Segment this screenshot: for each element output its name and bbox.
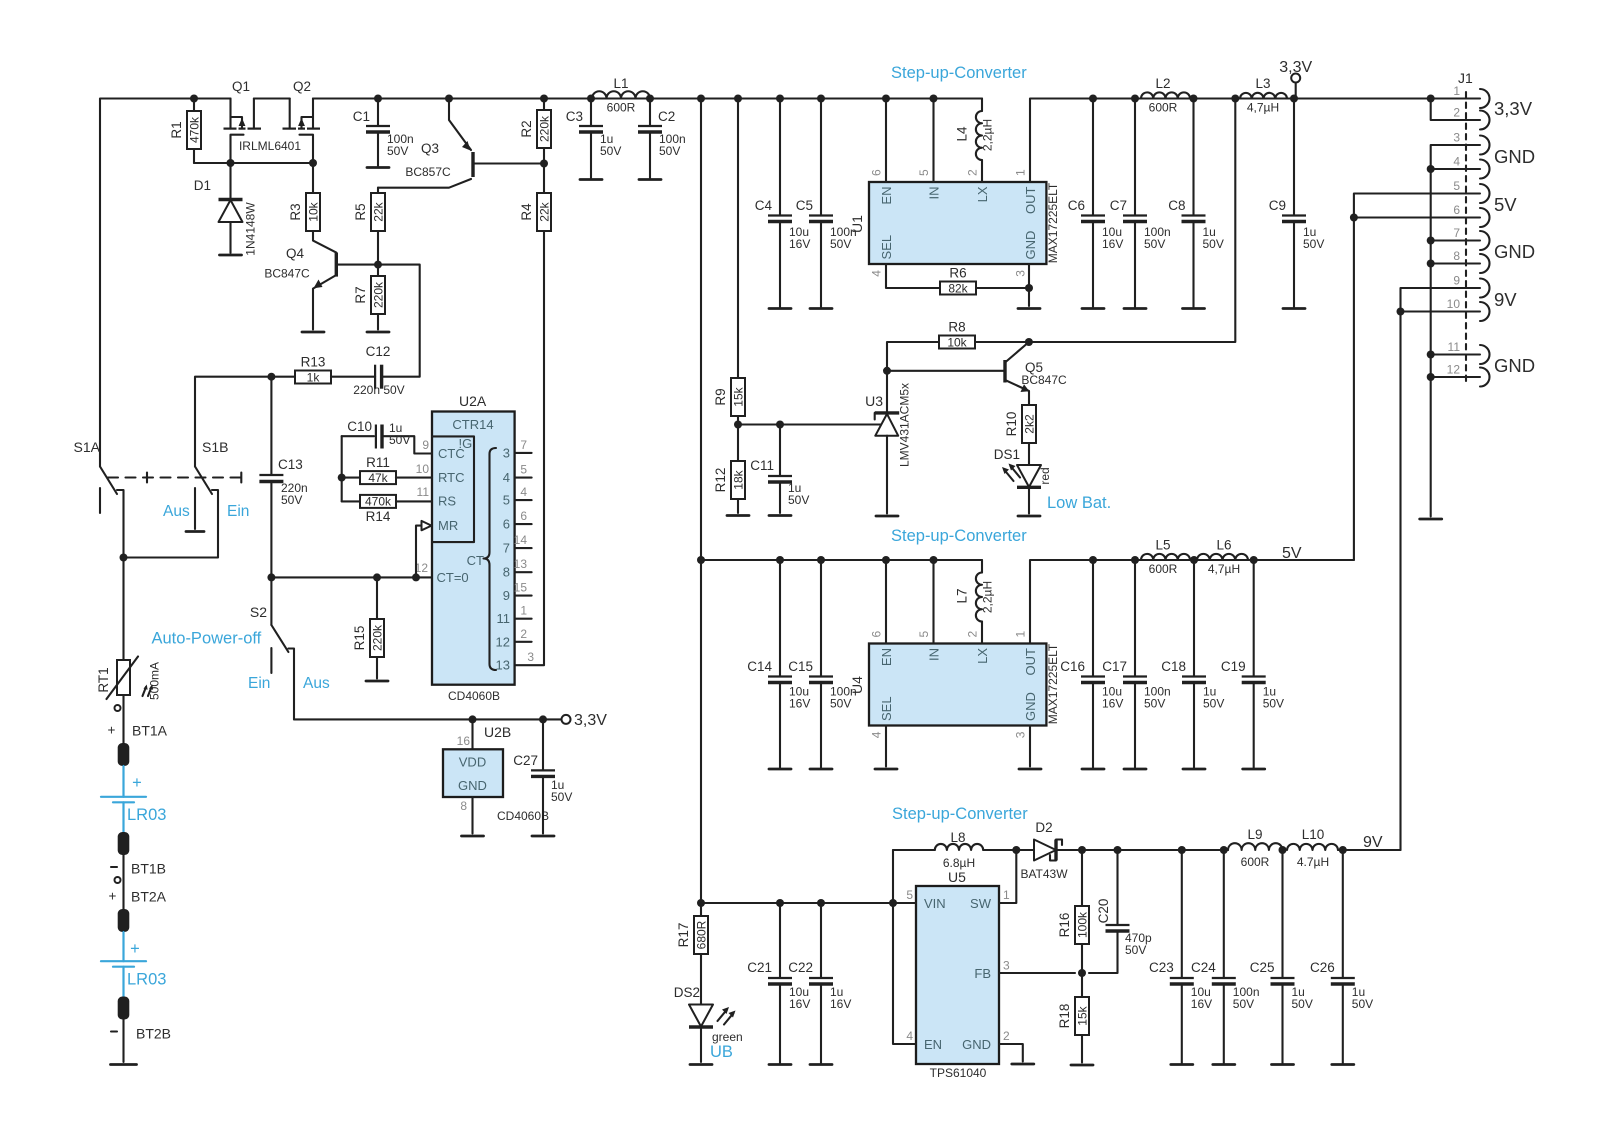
wire: FB pin 3 <box>999 972 1075 974</box>
svg-text:R8: R8 <box>948 320 965 335</box>
J1 pin 4 number <box>1453 155 1460 169</box>
svg-text:red: red <box>1038 467 1052 484</box>
svg-text:50V: 50V <box>1233 997 1254 1011</box>
wire: S1B top to R13 <box>195 377 295 467</box>
node: C27 junction <box>539 715 547 723</box>
wire: VIN/EN left riser <box>893 850 916 1044</box>
svg-text:L7: L7 <box>955 588 970 603</box>
capacitor C25 <box>1250 850 1313 1065</box>
net labels J1 <box>1494 98 1535 376</box>
capacitor C11 <box>750 425 809 514</box>
node: pin2 branch <box>1427 95 1435 103</box>
svg-text:TPS61040: TPS61040 <box>930 1066 987 1080</box>
svg-text:C9: C9 <box>1269 198 1286 213</box>
LED DS1 red <box>994 447 1052 514</box>
svg-text:L9: L9 <box>1247 827 1262 842</box>
svg-text:15k: 15k <box>732 386 746 406</box>
wire: U4 GND pin 3 <box>1029 726 1031 767</box>
resistor R12 <box>713 425 746 514</box>
svg-text:L4: L4 <box>955 126 970 142</box>
transistor Q2 (IRLML6401 P-MOSFET) <box>239 79 320 163</box>
capacitor C20 470p <box>1089 850 1152 973</box>
ground (U1 GND) <box>1018 307 1040 310</box>
battery contact BT2B <box>111 997 171 1063</box>
svg-text:600R: 600R <box>1149 101 1178 115</box>
svg-text:3: 3 <box>1014 731 1028 738</box>
svg-text:GND: GND <box>1023 231 1038 260</box>
svg-text:BC847C: BC847C <box>1021 373 1067 387</box>
text: 5V net label <box>1282 545 1302 562</box>
text: Step-up-Converter (3,3V) <box>891 64 1027 82</box>
svg-text:R10: R10 <box>1004 412 1019 437</box>
wire: SW pin 1 riser <box>999 850 1016 903</box>
node: feeder top <box>697 95 705 103</box>
svg-text:DS1: DS1 <box>994 447 1020 462</box>
svg-text:7: 7 <box>503 541 510 556</box>
U2A output Q6 pin 6 <box>503 509 532 532</box>
J1 pin 2 number <box>1453 106 1460 120</box>
text: Step-up-Converter (9V) <box>892 805 1028 823</box>
svg-text:S1B: S1B <box>202 439 228 455</box>
wire: U5 GND pin 2 <box>999 1044 1023 1062</box>
svg-text:C19: C19 <box>1221 659 1246 674</box>
resistor R14 <box>342 495 432 524</box>
svg-text:2: 2 <box>520 627 527 641</box>
inductor L3 4,7uH <box>1240 76 1287 115</box>
battery contact BT1B <box>111 832 166 909</box>
resistor R18 <box>1057 973 1090 1063</box>
svg-text:C21: C21 <box>747 960 772 975</box>
svg-text:6.8µH: 6.8µH <box>943 856 975 870</box>
svg-text:100k: 100k <box>1076 911 1090 938</box>
svg-text:L5: L5 <box>1155 538 1170 553</box>
svg-text:3: 3 <box>1003 959 1010 973</box>
node: C26 top / 9V <box>1339 846 1347 854</box>
node: C5 top <box>817 95 825 103</box>
resistor R5 <box>353 188 386 265</box>
node: U2B VDD junction <box>469 715 477 723</box>
svg-text:C24: C24 <box>1191 960 1216 975</box>
svg-text:UB: UB <box>710 1043 733 1061</box>
svg-text:Step-up-Converter: Step-up-Converter <box>891 527 1027 545</box>
capacitor C2 <box>638 99 686 180</box>
svg-text:LR03: LR03 <box>127 806 166 824</box>
wire: R4 to U2A pin3 (Q14) <box>515 231 544 665</box>
ground (R7) <box>367 331 389 334</box>
svg-text:9V: 9V <box>1494 289 1517 310</box>
node: D1 top <box>227 159 235 167</box>
svg-text:Aus: Aus <box>163 503 190 520</box>
inductor L8 6.8uH <box>893 830 1016 870</box>
resistor R9 <box>713 378 746 425</box>
svg-text:C14: C14 <box>747 659 772 674</box>
terminal: 3,3V supply to U2B <box>562 712 608 729</box>
svg-text:16V: 16V <box>830 997 851 1011</box>
wire: U1 EN pin 6 <box>885 99 887 183</box>
svg-text:6: 6 <box>870 631 884 638</box>
svg-text:50V: 50V <box>1352 997 1373 1011</box>
svg-text:13: 13 <box>514 557 528 571</box>
svg-text:7: 7 <box>520 438 527 452</box>
wire: MR riser with arrowhead <box>416 521 432 578</box>
capacitor C18 <box>1161 560 1224 769</box>
node: R9/R12 junction <box>734 421 742 429</box>
U2A pin 9 CTC <box>422 438 429 452</box>
svg-text:GND: GND <box>1494 355 1535 376</box>
diode D2 BAT43W schottky <box>1016 820 1082 881</box>
ground (U3) <box>876 515 898 518</box>
U2A pin 10 RTC <box>416 462 430 476</box>
svg-text:Q4: Q4 <box>286 246 305 261</box>
svg-text:220k: 220k <box>538 115 552 142</box>
svg-text:8: 8 <box>460 799 467 813</box>
node: R11 left junction <box>338 474 346 482</box>
capacitor C21 <box>747 903 810 1065</box>
ground (Q4 emitter) <box>302 331 324 334</box>
svg-text:6: 6 <box>503 517 510 532</box>
svg-text:16V: 16V <box>789 237 810 251</box>
node: C4 top <box>776 95 784 103</box>
capacitor C12 220n 50V <box>331 344 405 397</box>
svg-text:CD4060B: CD4060B <box>448 689 500 703</box>
capacitor C8 <box>1168 99 1224 309</box>
svg-text:5: 5 <box>1453 179 1460 193</box>
IC U4 MAX17225ELT <box>849 631 1060 739</box>
svg-text:green: green <box>712 1030 743 1044</box>
shunt regulator U3 LMV431ACM5x <box>865 383 911 514</box>
wire: C10/R11/R14 left node <box>341 436 343 501</box>
svg-text:16V: 16V <box>1102 237 1123 251</box>
resistor R11 <box>342 455 432 485</box>
svg-text:6: 6 <box>520 509 527 523</box>
capacitor C4 <box>755 99 811 309</box>
svg-text:82k: 82k <box>948 281 968 295</box>
svg-text:C6: C6 <box>1068 198 1085 213</box>
svg-text:12: 12 <box>496 634 510 649</box>
svg-text:DS2: DS2 <box>674 985 700 1000</box>
svg-text:47k: 47k <box>368 471 388 485</box>
svg-text:1: 1 <box>1003 888 1010 902</box>
svg-text:MAX17225ELT: MAX17225ELT <box>1046 643 1060 724</box>
capacitor C1 <box>353 99 414 168</box>
svg-text:C12: C12 <box>366 344 391 359</box>
svg-text:Auto-Power-off: Auto-Power-off <box>152 630 262 648</box>
svg-text:3: 3 <box>1453 131 1460 145</box>
svg-text:Q2: Q2 <box>293 79 311 94</box>
transistor Q3 BC857C <box>378 99 544 188</box>
battery cell 1 LR03 <box>101 766 166 832</box>
svg-text:C3: C3 <box>566 109 583 124</box>
LED DS2 green <box>674 985 743 1062</box>
svg-text:BT2B: BT2B <box>136 1026 171 1042</box>
svg-text:6: 6 <box>870 169 884 176</box>
svg-text:EN: EN <box>924 1037 942 1052</box>
svg-text:4: 4 <box>870 731 884 738</box>
capacitor C3 <box>566 99 622 180</box>
svg-text:LX: LX <box>975 186 990 202</box>
svg-text:RTC: RTC <box>438 470 464 485</box>
node: C7 top <box>1131 95 1139 103</box>
ground (C11) <box>769 514 791 517</box>
svg-text:50V: 50V <box>659 144 680 158</box>
wire: 3,3V output rail <box>1030 99 1480 183</box>
wire: J1 GND bus pins 3,4,7,8,11,12 <box>1431 145 1480 517</box>
svg-text:CTC: CTC <box>438 446 465 461</box>
J1 pin 9 number <box>1453 274 1460 288</box>
node: C16 top <box>1089 556 1097 564</box>
U2A output Q5 pin 4 <box>503 485 532 508</box>
svg-text:D1: D1 <box>194 178 211 193</box>
fuse RT1 500mA PTC <box>96 558 162 744</box>
node: C18 top <box>1190 556 1198 564</box>
inductor L7 2,2uH <box>955 560 995 644</box>
svg-text:5V: 5V <box>1494 194 1517 215</box>
svg-text:L6: L6 <box>1216 538 1231 553</box>
svg-text:L2: L2 <box>1155 76 1170 91</box>
svg-text:2: 2 <box>966 169 980 176</box>
wire: U1 GND pin 3 <box>1028 264 1030 306</box>
battery contact BT2A <box>109 889 167 933</box>
svg-text:5: 5 <box>503 493 510 508</box>
node: GND bus junction <box>1427 373 1435 381</box>
svg-text:SW: SW <box>970 896 992 911</box>
svg-text:C17: C17 <box>1102 659 1127 674</box>
J1 pin 6 number <box>1453 203 1460 217</box>
node: C2 top <box>646 95 654 103</box>
connector J1 <box>1458 70 1490 387</box>
svg-text:RT1: RT1 <box>96 667 111 692</box>
svg-text:C16: C16 <box>1060 659 1085 674</box>
resistor R7 <box>353 265 386 330</box>
svg-text:SEL: SEL <box>879 696 894 721</box>
svg-text:50V: 50V <box>389 433 410 447</box>
node: C14 top <box>776 556 784 564</box>
svg-text:4: 4 <box>870 270 884 277</box>
svg-text:4: 4 <box>1453 155 1460 169</box>
svg-text:11: 11 <box>497 611 511 626</box>
svg-text:Low Bat.: Low Bat. <box>1047 494 1111 512</box>
svg-text:50V: 50V <box>281 493 302 507</box>
node: R16 top <box>1078 846 1086 854</box>
svg-text:13: 13 <box>496 658 510 673</box>
svg-text:22k: 22k <box>372 201 386 221</box>
svg-text:50V: 50V <box>830 697 851 711</box>
ground (DS1) <box>1018 515 1040 518</box>
svg-text:U3: U3 <box>865 393 883 409</box>
wire: S2 output to 3,3V terminal <box>294 718 562 720</box>
svg-text:4,7µH: 4,7µH <box>1208 562 1240 576</box>
svg-text:Step-up-Converter: Step-up-Converter <box>891 64 1027 82</box>
svg-text:50V: 50V <box>387 144 408 158</box>
node: C1 top <box>374 95 382 103</box>
svg-text:R3: R3 <box>288 203 303 220</box>
transistor Q1 (IRLML6401 P-MOSFET) <box>224 79 262 163</box>
svg-text:VDD: VDD <box>459 755 486 770</box>
text: Auto-Power-off <box>152 630 262 648</box>
node: C15 top <box>817 556 825 564</box>
svg-text:BT1A: BT1A <box>132 723 168 739</box>
U2A output Q12 pin 2 <box>496 627 532 650</box>
svg-text:C18: C18 <box>1161 659 1186 674</box>
svg-text:15k: 15k <box>1076 1005 1090 1025</box>
wire: 9V to J1 riser <box>1338 849 1401 851</box>
svg-text:VIN: VIN <box>924 896 946 911</box>
svg-text:9: 9 <box>1453 274 1460 288</box>
svg-text:5: 5 <box>917 169 931 176</box>
resistor R2 <box>519 99 552 164</box>
U2A pin 11 RS <box>417 485 430 499</box>
terminal: 3,3V output <box>1279 59 1312 99</box>
IC U2A CD4060B counter <box>432 393 515 703</box>
svg-text:IRLML6401: IRLML6401 <box>239 139 301 153</box>
svg-text:S1A: S1A <box>74 439 101 455</box>
svg-text:3,3V: 3,3V <box>1279 59 1312 76</box>
node: C22 top <box>817 899 825 907</box>
wire: U3 ref line <box>738 423 881 425</box>
svg-text:220n 50V: 220n 50V <box>353 383 404 397</box>
svg-text:4: 4 <box>906 1029 913 1043</box>
svg-text:9V: 9V <box>1363 834 1383 851</box>
svg-text:50V: 50V <box>1144 697 1165 711</box>
inductor L5 600R <box>1141 538 1190 577</box>
node: VIN junction <box>889 899 897 907</box>
node: C3 top <box>587 95 595 103</box>
capacitor C24 <box>1191 850 1259 1065</box>
node: Q4 base / R5 / R7 junction <box>374 261 382 269</box>
U2A pin 12 CT=0 <box>415 561 429 575</box>
wire: J1 pins 9,10 9V feed <box>1401 288 1481 850</box>
svg-text:6: 6 <box>1453 203 1460 217</box>
ground (R15) <box>366 680 388 683</box>
svg-text:OUT: OUT <box>1023 648 1038 676</box>
J1 pin 8 number <box>1453 249 1460 263</box>
node: R2/R4/Q3 base junction <box>540 160 548 168</box>
node: pin6 branch <box>1350 214 1358 222</box>
node: C25 top <box>1279 846 1287 854</box>
resistor R15 <box>352 577 385 678</box>
svg-text:R6: R6 <box>949 266 966 281</box>
svg-text:1: 1 <box>1453 84 1460 98</box>
resistor R17 <box>676 903 709 1005</box>
svg-text:C8: C8 <box>1168 198 1185 213</box>
node: C6 top <box>1089 95 1097 103</box>
node: C8 top <box>1190 95 1198 103</box>
svg-text:5: 5 <box>906 888 913 902</box>
U2A output Q9 pin 15 <box>503 581 532 604</box>
svg-text:50V: 50V <box>830 237 851 251</box>
svg-text:R15: R15 <box>352 626 367 651</box>
node: C21 top <box>776 899 784 907</box>
node: R15 top <box>373 573 381 581</box>
svg-text:C27: C27 <box>513 753 538 768</box>
node: S2/C13 junction <box>267 573 275 581</box>
svg-text:GND: GND <box>962 1037 991 1052</box>
svg-text:10k: 10k <box>307 201 321 221</box>
resistor R1 <box>169 99 202 164</box>
svg-text:L10: L10 <box>1302 827 1325 842</box>
svg-text:LMV431ACM5x: LMV431ACM5x <box>898 383 912 467</box>
svg-text:8: 8 <box>503 565 510 580</box>
capacitor C5 <box>796 99 857 309</box>
svg-text:1: 1 <box>1014 169 1028 176</box>
svg-text:L3: L3 <box>1255 76 1270 91</box>
svg-text:IN: IN <box>927 187 942 200</box>
ground (R12) <box>727 514 749 517</box>
svg-text:16: 16 <box>457 734 471 748</box>
svg-text:16V: 16V <box>789 997 810 1011</box>
svg-text:4: 4 <box>520 485 527 499</box>
wire: CT=0 node line <box>271 576 432 578</box>
ground (U4 GND) <box>1019 768 1041 771</box>
wire: U4 EN pin 6 <box>885 560 887 644</box>
svg-text:GND: GND <box>1494 241 1535 262</box>
transistor Q4 BC847C <box>264 231 378 330</box>
svg-text:R7: R7 <box>353 286 368 303</box>
svg-text:11: 11 <box>417 485 430 499</box>
svg-text:Ein: Ein <box>248 675 270 692</box>
diode D1 1N4148W <box>194 163 258 256</box>
svg-text:EN: EN <box>879 648 894 666</box>
wire: U1 SEL pin 4 to R6 <box>886 264 940 288</box>
node: R1 top junction <box>190 95 198 103</box>
node: C23 top <box>1178 846 1186 854</box>
node: U4 IN top <box>930 556 938 564</box>
resistor R10 <box>1004 405 1037 465</box>
node: C20 top <box>1114 846 1122 854</box>
svg-text:50V: 50V <box>1303 237 1324 251</box>
svg-text:16V: 16V <box>1102 697 1123 711</box>
node: C13 top <box>267 373 275 381</box>
svg-text:1N4148W: 1N4148W <box>244 202 258 256</box>
svg-text:1: 1 <box>1014 631 1028 638</box>
capacitor C27 <box>513 719 572 833</box>
svg-text:BC857C: BC857C <box>405 165 451 179</box>
svg-text:EN: EN <box>879 187 894 205</box>
svg-text:2: 2 <box>1453 106 1460 120</box>
svg-text:50V: 50V <box>1292 997 1313 1011</box>
wire: 3,3V sense to R8 <box>975 99 1235 343</box>
U2A output Q11 pin 1 <box>497 604 532 627</box>
IC U5 TPS61040 <box>906 869 1010 1080</box>
svg-text:U2A: U2A <box>459 393 487 409</box>
text: UB net label <box>710 1043 733 1061</box>
svg-text:J1: J1 <box>1458 70 1473 86</box>
svg-text:R13: R13 <box>301 355 326 370</box>
svg-text:C26: C26 <box>1310 960 1335 975</box>
svg-text:U2B: U2B <box>484 724 511 740</box>
inductor L2 600R <box>1141 76 1190 115</box>
svg-text:S2: S2 <box>250 604 267 620</box>
wire: section2 input rail <box>701 559 982 561</box>
capacitor C17 <box>1102 560 1170 769</box>
capacitor C10 <box>342 419 432 454</box>
node: C9 top <box>1290 95 1298 103</box>
svg-text:CD4060B: CD4060B <box>497 809 549 823</box>
svg-text:R16: R16 <box>1057 913 1072 938</box>
svg-text:50V: 50V <box>1203 237 1224 251</box>
node: feeder bottom / R17 <box>697 899 705 907</box>
node: U1 IN top <box>930 95 938 103</box>
svg-text:2k2: 2k2 <box>1023 414 1037 434</box>
node: U3/Q5 base junction <box>883 367 891 375</box>
inductor L1 600R <box>592 76 650 115</box>
svg-text:Step-up-Converter: Step-up-Converter <box>892 805 1028 823</box>
switch S1A <box>74 439 147 558</box>
capacitor C7 <box>1110 99 1171 309</box>
svg-text:600R: 600R <box>607 101 636 115</box>
svg-text:R14: R14 <box>366 509 391 524</box>
svg-text:600R: 600R <box>1241 855 1270 869</box>
